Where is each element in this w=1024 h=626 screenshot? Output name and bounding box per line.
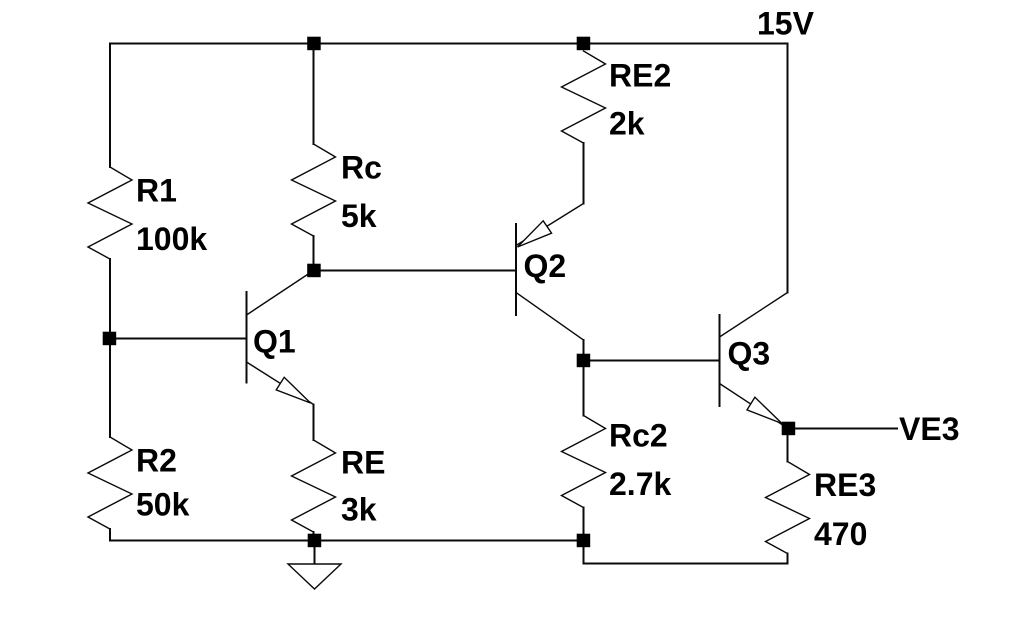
svg-text:VE3: VE3 (899, 411, 959, 447)
wire RE3 top lead (787, 429, 789, 462)
Q2 emitter arrowhead (518, 221, 552, 247)
node dot top RE2 (577, 37, 591, 51)
node dot Rc bottom / Q2 base (307, 264, 321, 278)
resistor Rc (292, 144, 336, 236)
svg-text:Q1: Q1 (253, 324, 296, 360)
wire Q1 emitter diagonal (247, 362, 314, 405)
wire RE2 bottom lead (583, 143, 585, 204)
wire Rc top lead (313, 44, 315, 145)
svg-text:2k: 2k (609, 106, 645, 142)
wire left rail middle (109, 259, 111, 437)
wire Q2 collector diagonal (516, 293, 584, 341)
wire RE bottom stub (313, 532, 315, 541)
node dot left rail / Q1 base (103, 332, 117, 346)
wire Rc bottom lead (313, 236, 315, 271)
node dot Q2 collector / Q3 base (577, 354, 591, 368)
svg-text:50k: 50k (136, 487, 190, 523)
wire ground stub (314, 541, 316, 565)
wire bottom-right jog (584, 541, 788, 564)
svg-text:Q2: Q2 (524, 248, 567, 284)
wire Rc2 bottom stub (583, 508, 585, 541)
svg-text:RE: RE (341, 445, 385, 481)
svg-text:RE3: RE3 (814, 467, 876, 503)
svg-text:5k: 5k (341, 198, 377, 234)
wire Q3 base (584, 360, 720, 362)
svg-text:470: 470 (814, 516, 867, 552)
svg-text:Rc2: Rc2 (609, 418, 668, 454)
resistor RE (292, 440, 336, 532)
resistor Rc2 (562, 416, 606, 508)
node dot top Rc (307, 37, 321, 51)
wire bottom rail (110, 540, 584, 542)
wire Q1 emitter lead to RE (313, 405, 315, 441)
node dot ground (308, 534, 322, 548)
wire right rail (Q3 collector to 15V) (787, 44, 789, 293)
wire Q3 emitter diagonal (720, 384, 789, 429)
wire left rail bottom stub (109, 529, 111, 541)
node dot Q3 emitter / VE3 (782, 422, 796, 436)
transistor Q3 base bar (719, 315, 721, 406)
ground symbol (288, 564, 341, 589)
resistor R2 (88, 437, 132, 529)
wire Q1 base (110, 338, 247, 340)
svg-text:Rc: Rc (341, 150, 382, 186)
node dot bottom Rc2 (577, 534, 591, 548)
wire Q2 emitter diagonal (516, 204, 584, 246)
resistor RE3 (766, 462, 810, 554)
resistor RE2 (562, 51, 606, 143)
wire left rail upper (109, 44, 111, 168)
wire VE3 lead (788, 428, 897, 430)
svg-text:R1: R1 (136, 173, 177, 209)
wire Rc2 top lead (583, 361, 585, 416)
wire Q1 collector diagonal (247, 271, 314, 316)
wire Q2 collector lead (583, 340, 585, 361)
wire Q2 base (314, 270, 517, 272)
svg-text:3k: 3k (341, 492, 377, 528)
wire Q3 collector diagonal (720, 293, 788, 338)
svg-text:Q3: Q3 (728, 336, 771, 372)
Q1 emitter arrowhead (276, 377, 310, 403)
svg-text:R2: R2 (136, 443, 177, 479)
wire RE3 bottom stub (787, 554, 789, 564)
svg-text:15V: 15V (757, 6, 815, 42)
svg-text:RE2: RE2 (609, 58, 671, 94)
transistor Q1 base bar (246, 292, 248, 383)
svg-text:2.7k: 2.7k (609, 466, 671, 502)
svg-text:100k: 100k (136, 221, 207, 257)
Q3 emitter arrowhead (747, 397, 782, 423)
transistor Q2 base bar (515, 224, 517, 315)
wire top rail 15V (110, 43, 788, 45)
resistor R1 (88, 167, 132, 259)
